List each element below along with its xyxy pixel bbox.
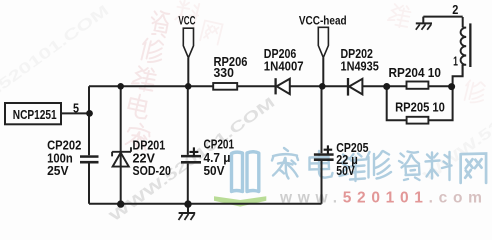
svg-text:25V: 25V <box>47 163 69 178</box>
svg-text:1N4007: 1N4007 <box>264 59 304 74</box>
svg-text:1N4935: 1N4935 <box>341 59 379 74</box>
svg-text:RP205 10: RP205 10 <box>395 100 445 115</box>
svg-text:NCP1251: NCP1251 <box>13 107 57 122</box>
svg-text:50V: 50V <box>204 163 225 178</box>
svg-text:2: 2 <box>452 2 458 17</box>
svg-text:RP204 10: RP204 10 <box>389 65 441 80</box>
svg-text:1: 1 <box>453 53 458 68</box>
svg-text:330: 330 <box>214 65 234 80</box>
svg-text:VCC: VCC <box>178 16 195 28</box>
svg-text:VCC-head: VCC-head <box>299 15 347 27</box>
svg-text:5: 5 <box>73 100 79 115</box>
svg-text:50V: 50V <box>336 163 355 178</box>
svg-text:SOD-20: SOD-20 <box>133 163 171 178</box>
